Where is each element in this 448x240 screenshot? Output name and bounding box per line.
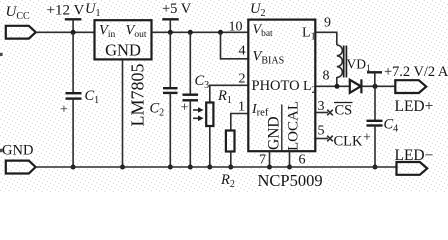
wire rail to C1 (72, 32, 74, 93)
U2 pin PHOTO label (252, 78, 300, 94)
signal CLK label (334, 134, 364, 150)
svg-text:10: 10 (229, 20, 243, 35)
pin number 8 (323, 69, 330, 84)
IC U2 label (250, 1, 265, 19)
wire pin9 to L1 (316, 32, 337, 45)
capacitor C2 (150, 88, 178, 119)
diode VD1 (347, 57, 372, 94)
U2 pin Vbat label (253, 23, 274, 40)
wire C1 to ground (72, 99, 74, 167)
pin number 10 (229, 20, 243, 35)
+12V power tap (65, 19, 82, 32)
capacitor C1 (60, 88, 99, 118)
wire pin7 to ground (269, 152, 271, 168)
U2 pin VBIAS label (253, 49, 285, 67)
wire rail to C3 (189, 32, 191, 94)
value label NCP5009 (258, 171, 323, 190)
wire L1 to pin8 row (336, 77, 338, 86)
pin number 3 (318, 99, 325, 114)
svg-text:+: + (60, 103, 68, 118)
scan mark left edge bottom (0, 149, 3, 152)
junction dot L1 pin8 (335, 84, 340, 89)
pin number 9 (324, 16, 331, 31)
svg-text:CS: CS (335, 103, 353, 119)
svg-text:GND: GND (266, 116, 283, 150)
svg-text:+7.2 V/2 A: +7.2 V/2 A (384, 64, 448, 80)
signal CS label with overline (334, 103, 353, 119)
connector Ucc (6, 26, 36, 39)
wire rail to C2 (169, 32, 171, 88)
U1 pin Vout label (126, 22, 147, 40)
svg-text:PHOTO: PHOTO (252, 78, 300, 94)
pin5 no-connect (316, 136, 333, 142)
svg-text:LM7805: LM7805 (128, 64, 148, 127)
U2 pin L2 label (303, 79, 317, 96)
pin number 4 (239, 44, 246, 59)
junction dot rail C2 (168, 30, 173, 35)
junction dot ground pin6 (287, 165, 292, 170)
svg-text:NCP5009: NCP5009 (258, 171, 323, 190)
+5V power tap (162, 19, 178, 32)
svg-text:CLK: CLK (334, 134, 364, 150)
pin number 2 (239, 72, 246, 87)
svg-text:1: 1 (238, 100, 245, 115)
capacitor C4 (363, 117, 398, 146)
pin number 1 (238, 100, 245, 115)
svg-text:2: 2 (239, 72, 246, 87)
resistor R2 (220, 131, 235, 191)
wire pin8 to diode (316, 85, 350, 87)
ground rail wire (35, 166, 396, 168)
junction dot rail VBIAS (218, 30, 223, 35)
resistor R1 (206, 88, 232, 126)
wire PHOTO pin2 to R1 (210, 85, 248, 101)
junction dot output node (373, 84, 378, 89)
junction dot ground U1 (120, 165, 125, 170)
regulator U1 box (95, 20, 152, 59)
svg-text:LED+: LED+ (395, 98, 434, 115)
connector LED- (395, 147, 434, 175)
light arrows onto R1 (193, 107, 204, 121)
node GND label (2, 143, 33, 159)
pin number 7 (259, 153, 266, 168)
junction dot ground C2 (168, 165, 173, 170)
junction dot ground C1 (71, 165, 76, 170)
svg-text:7: 7 (259, 153, 266, 168)
junction dot ground C3 (188, 165, 193, 170)
wire pin6 to ground (289, 152, 291, 168)
wire R1 to ground (209, 127, 211, 167)
inductor L1 (337, 45, 347, 78)
IC U2 box (248, 20, 315, 152)
U1 GND label (105, 41, 141, 60)
svg-text:GND: GND (2, 143, 33, 159)
svg-text:LED−: LED− (395, 147, 434, 164)
wire C2 to ground (169, 93, 171, 167)
svg-text:5: 5 (318, 124, 325, 139)
junction dot ground R2 (228, 165, 233, 170)
connector LED+ (395, 80, 434, 115)
wire U1 GND to ground (122, 60, 124, 167)
svg-text:+12 V: +12 V (47, 3, 85, 19)
svg-text:+: + (181, 101, 189, 116)
svg-text:LOCAL: LOCAL (286, 101, 302, 151)
wire output node to C4 (374, 86, 376, 121)
wire diode to LED+ connector (361, 85, 395, 87)
pin number 5 (318, 124, 325, 139)
pin3 no-connect (316, 110, 333, 116)
svg-text:+5 V: +5 V (162, 1, 192, 17)
+12V label (47, 3, 85, 19)
connector GND (6, 161, 36, 174)
pin number 6 (299, 153, 306, 168)
+7.2 V/2 A label (384, 64, 448, 80)
junction dot top rail / C1 (71, 30, 76, 35)
capacitor C3 (181, 73, 210, 116)
regulator U1 label (85, 1, 100, 19)
U2 pin GND label rotated (266, 116, 283, 150)
svg-text:6: 6 (299, 153, 306, 168)
junction dot rail C3 (188, 30, 193, 35)
U1 pin Vin label (99, 22, 115, 40)
value label LM7805 (128, 64, 148, 127)
node Ucc label (6, 4, 31, 22)
svg-text:8: 8 (323, 69, 330, 84)
+7.2V power tap (367, 72, 382, 86)
svg-text:GND: GND (105, 41, 141, 60)
wire R2 to ground (230, 152, 232, 168)
junction dot ground C4 (373, 165, 378, 170)
wire U1 Vout +5V rail (152, 31, 248, 33)
svg-text:4: 4 (239, 44, 246, 59)
wire Iref pin1 to R2 (231, 114, 248, 130)
U2 pin L1 label (302, 26, 316, 43)
junction dot ground R1 (207, 165, 212, 170)
scan mark left edge top (0, 53, 3, 56)
wire rail to VBIAS pin4 (221, 32, 249, 59)
U2 pin LOCAL label rotated with overline (282, 101, 302, 151)
+5V label (162, 1, 192, 17)
wire C3 to ground (189, 100, 191, 167)
wire Ucc to U1 (36, 31, 94, 33)
svg-text:9: 9 (324, 16, 331, 31)
wire C4 to ground (374, 126, 376, 168)
junction dot ground pin7 (267, 165, 272, 170)
svg-text:+: + (363, 131, 371, 146)
U2 pin Iref label (251, 102, 269, 119)
